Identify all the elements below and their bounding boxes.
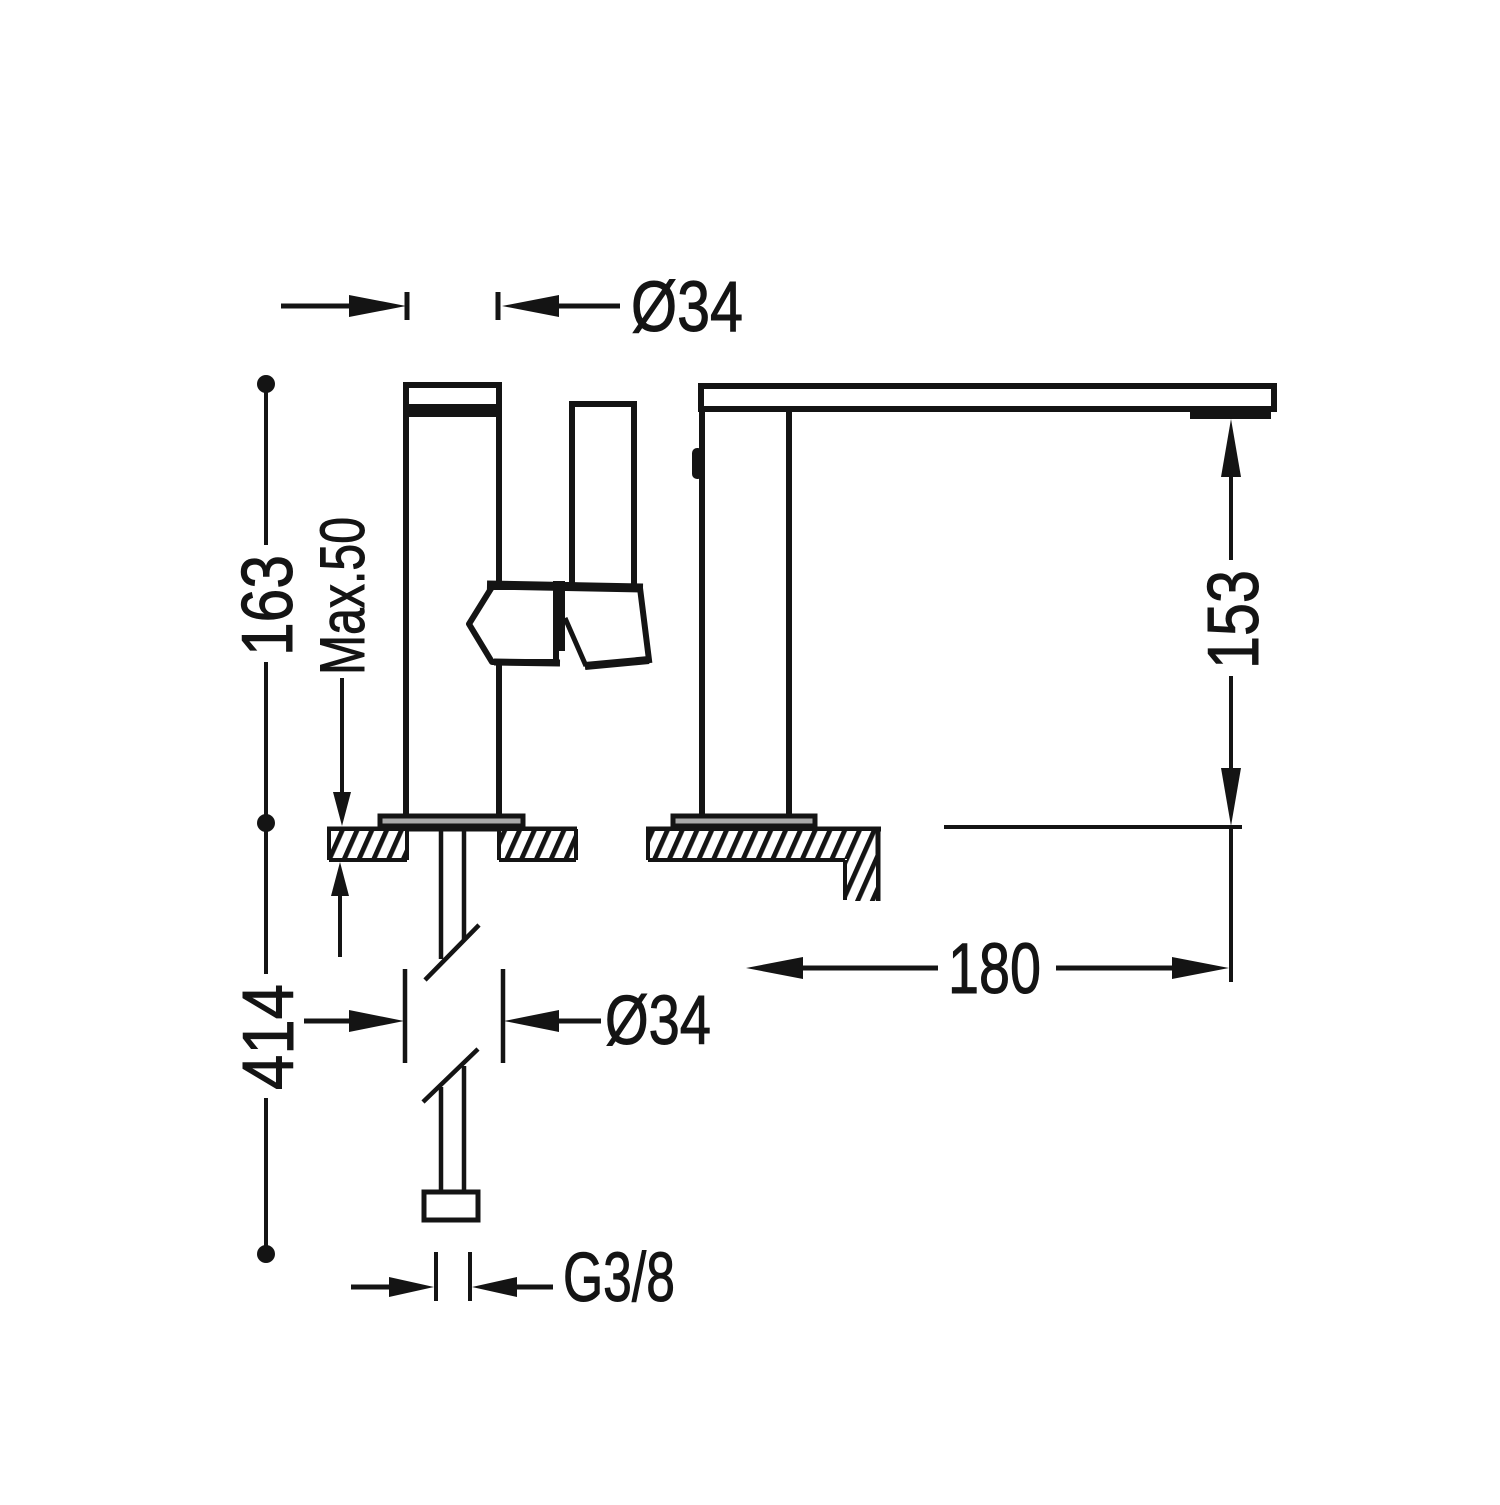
supply pipe lower left line — [439, 1087, 444, 1192]
pipe break diagonal 1 — [425, 925, 479, 980]
G38 tick left — [434, 1252, 438, 1301]
front column top band — [404, 404, 501, 417]
lever pentagon bottom edge — [494, 662, 560, 663]
side countertop top edge — [646, 827, 881, 832]
top dim right arrowhead — [502, 295, 559, 317]
hose end fitting — [424, 1192, 478, 1220]
dim 153 top arrowhead — [1221, 419, 1241, 477]
dia34 bottom right stem — [556, 1019, 601, 1024]
dim 180 left stem — [800, 966, 938, 971]
lever notch diagonal — [565, 618, 586, 666]
svg-text:Ø34: Ø34 — [605, 981, 711, 1059]
top dim line left stem — [281, 304, 352, 309]
top dim tick left — [405, 292, 410, 320]
lever separator bar — [553, 581, 565, 651]
max50 stem lower — [338, 894, 342, 957]
svg-text:163: 163 — [228, 555, 308, 656]
side column bump — [692, 448, 703, 479]
top dim left arrowhead — [349, 295, 406, 317]
front countertop top edge — [327, 827, 577, 832]
lever top edge — [487, 585, 643, 588]
dia34 bottom dim left stem — [304, 1019, 355, 1024]
dim 180 right arrowhead — [1172, 957, 1229, 979]
side countertop step hatch — [847, 859, 876, 901]
handle stem — [572, 407, 634, 592]
svg-text:414: 414 — [229, 984, 309, 1090]
dim 163 line upper — [264, 384, 268, 545]
svg-text:G3/8: G3/8 — [563, 1238, 675, 1316]
lever right quad — [566, 585, 649, 666]
dim 414 bottom dot — [257, 1245, 275, 1263]
front countertop left hatch — [329, 831, 407, 859]
supply pipe upper right line — [462, 828, 467, 940]
front base plate — [380, 816, 523, 826]
ref line — [944, 825, 1242, 829]
supply pipe upper left line — [439, 828, 444, 959]
lever quad bottom edge — [585, 660, 649, 666]
top dim tick right — [496, 292, 501, 320]
side countertop hatch — [648, 831, 878, 859]
svg-text:153: 153 — [1194, 570, 1274, 669]
dia34 bottom left arrowhead — [349, 1010, 404, 1032]
dim 180 left arrowhead — [746, 957, 803, 979]
pipe break diagonal 2 — [423, 1049, 478, 1102]
side column right edge — [786, 409, 792, 816]
supply pipe lower right line — [462, 1066, 467, 1192]
top dim right stem — [556, 304, 620, 309]
dim 163 line lower — [264, 662, 268, 823]
dim 163 top dot — [257, 375, 275, 393]
dim 153 bottom arrowhead — [1221, 768, 1241, 826]
G38 right arrowhead — [472, 1277, 517, 1297]
dim 180 right stem — [1056, 966, 1175, 971]
G38 dim right stem — [514, 1285, 553, 1290]
G38 dim left stem — [351, 1285, 395, 1290]
dim 414 line upper — [264, 823, 268, 974]
G38 tick right — [468, 1252, 472, 1301]
svg-text:Max.50: Max.50 — [308, 517, 378, 675]
svg-text:Ø34: Ø34 — [631, 268, 743, 347]
lever left pentagon — [469, 587, 556, 662]
dim 153 extension below — [1229, 826, 1233, 982]
side base plate — [673, 816, 815, 826]
dia extension line left — [403, 969, 408, 1063]
dia extension line right — [501, 969, 506, 1063]
dim 414 line lower — [264, 1098, 268, 1254]
side countertop step — [843, 860, 847, 900]
dim 163 bottom dot — [257, 814, 275, 832]
dim 153 line lower — [1229, 676, 1233, 770]
G38 left arrowhead — [389, 1277, 434, 1297]
side view spout bar — [701, 386, 1274, 409]
side column left edge — [699, 409, 705, 816]
side spout outlet band — [1190, 410, 1271, 419]
front countertop right hatch — [499, 831, 576, 859]
dia34 bottom right arrowhead — [504, 1010, 559, 1032]
max50 up arrowhead — [331, 862, 349, 896]
svg-text:180: 180 — [948, 930, 1041, 1009]
max50 stem upper — [340, 678, 344, 795]
front view body column — [406, 385, 499, 818]
dim 153 line upper — [1229, 475, 1233, 560]
max50 down arrowhead — [333, 792, 351, 826]
